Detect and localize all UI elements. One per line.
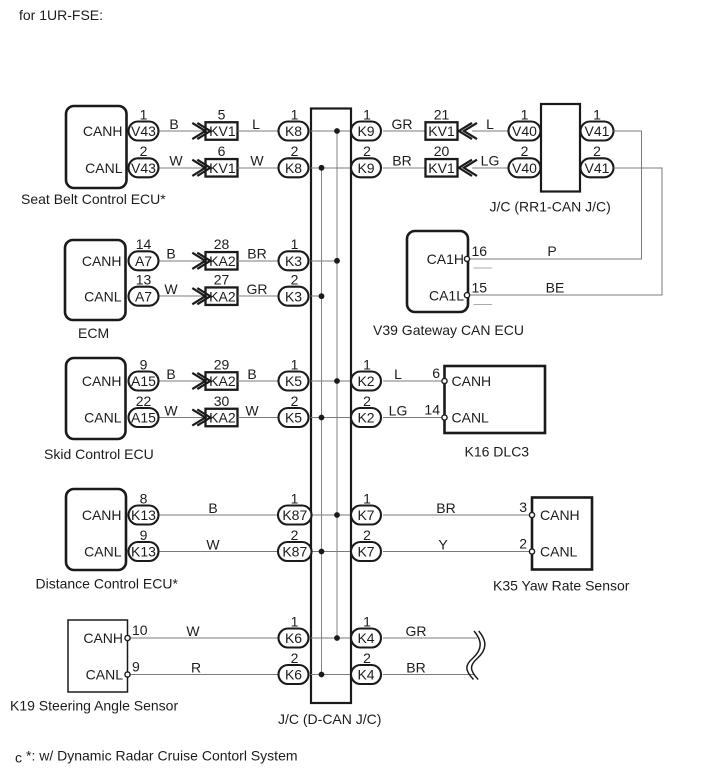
svg-text:K19 Steering Angle Sensor: K19 Steering Angle Sensor — [10, 698, 178, 714]
svg-text:KA2: KA2 — [209, 288, 236, 304]
connector A7 pin 13 — [129, 287, 159, 306]
svg-text:K13: K13 — [131, 507, 156, 523]
wire K3-1 into junction block — [311, 260, 338, 262]
V39 Gateway CAN ECU box — [407, 231, 468, 312]
connector K5 pin 1 — [279, 372, 309, 391]
junction dot row5 CANL — [319, 672, 325, 678]
wire A15-9 to KA2 (B) — [159, 380, 207, 382]
connector V43 pin 1 — [129, 122, 159, 141]
svg-text:1: 1 — [140, 106, 148, 122]
svg-text:2: 2 — [291, 272, 299, 288]
svg-text:J/C (D-CAN J/C): J/C (D-CAN J/C) — [278, 711, 381, 727]
svg-text:K4: K4 — [357, 667, 374, 683]
splice chevrons into KA2 pin 28 — [192, 253, 210, 269]
wire V43-1 to KV1 (B) — [159, 130, 207, 132]
connector A15 pin 22 — [129, 408, 159, 427]
svg-text:KV1: KV1 — [428, 123, 455, 139]
svg-text:K3: K3 — [285, 253, 302, 269]
junction dot row5 CANH — [334, 635, 340, 641]
CANL internal bus line — [321, 168, 323, 675]
junction connector KA2 pin 28 — [206, 252, 238, 269]
svg-text:K4: K4 — [357, 630, 374, 646]
svg-text:V39 Gateway CAN ECU: V39 Gateway CAN ECU — [373, 322, 524, 338]
svg-text:2: 2 — [519, 536, 527, 552]
svg-text:A15: A15 — [131, 373, 156, 389]
junction block J/C (D-CAN J/C) body — [311, 109, 351, 704]
junction connector KA2 pin 30 — [206, 409, 238, 427]
wire through junction block row5 CANL — [311, 674, 352, 676]
svg-text:K9: K9 — [357, 160, 374, 176]
wire through junction block row1 CANL — [311, 167, 352, 169]
connector K7 pin 1 — [351, 506, 381, 525]
svg-text:2: 2 — [140, 143, 148, 159]
connector K13 pin 9 — [129, 542, 159, 561]
svg-text:V40: V40 — [512, 123, 537, 139]
svg-text:BR: BR — [247, 246, 266, 262]
svg-text:W: W — [245, 402, 259, 418]
svg-text:GR: GR — [247, 281, 268, 297]
wire through junction block row4 CANL — [311, 551, 352, 553]
svg-text:L: L — [486, 116, 494, 132]
svg-text:CANL: CANL — [84, 410, 122, 426]
svg-text:KA2: KA2 — [209, 410, 236, 426]
connector K9 pin 1 — [351, 122, 381, 141]
junction block J/C (RR1-CAN J/C) body — [541, 104, 580, 192]
junction connector KV1 pin 21 — [426, 122, 458, 140]
svg-text:CA1L: CA1L — [429, 288, 464, 304]
svg-text:K3: K3 — [285, 288, 302, 304]
svg-text:2: 2 — [593, 143, 601, 159]
connector V40 pin 2 — [509, 158, 541, 177]
svg-text:B: B — [247, 366, 256, 382]
junction connector KV1 pin 6 — [206, 159, 238, 177]
svg-text:8: 8 — [140, 490, 148, 506]
svg-text:21: 21 — [434, 106, 450, 122]
svg-text:GR: GR — [406, 623, 427, 639]
wire V43-2 to KV1 (W) — [159, 167, 207, 169]
svg-text:6: 6 — [432, 365, 440, 381]
svg-text:1: 1 — [363, 356, 371, 372]
junction dot row3 CANL — [319, 415, 325, 421]
svg-text:5: 5 — [218, 106, 226, 122]
wire K2 to DLC3 (LG) — [383, 417, 445, 419]
wire V41-1 to CA1H (P) with corner — [470, 131, 642, 259]
svg-text:W: W — [186, 623, 200, 639]
svg-text:9: 9 — [132, 659, 140, 675]
wire KA2 to K3 (GR) — [238, 295, 279, 297]
connector K9 pin 2 — [351, 158, 381, 177]
svg-text:A7: A7 — [135, 253, 152, 269]
svg-text:K5: K5 — [285, 410, 302, 426]
svg-text:K5: K5 — [285, 373, 302, 389]
svg-text:KA2: KA2 — [209, 253, 236, 269]
svg-text:Skid Control ECU: Skid Control ECU — [44, 446, 154, 462]
splice chevrons into KA2 pin 27 — [192, 288, 210, 304]
svg-text:2: 2 — [291, 650, 299, 666]
pin terminal 10 — [125, 635, 130, 640]
svg-text:CANL: CANL — [84, 288, 122, 304]
svg-text:2: 2 — [363, 527, 371, 543]
connector V41 pin 1 — [581, 122, 614, 141]
svg-text:KV1: KV1 — [428, 160, 455, 176]
pin terminal 6 — [442, 378, 447, 383]
connector K6 pin 2 — [279, 665, 309, 684]
Seat Belt Control ECU box — [66, 106, 127, 188]
svg-text:CANL: CANL — [452, 410, 490, 426]
junction dot row4 CANL — [319, 549, 325, 555]
connector K87 pin 1 — [278, 506, 312, 525]
pin terminal 16 — [464, 256, 469, 261]
svg-text:6: 6 — [218, 143, 226, 159]
Distance Control ECU box — [66, 489, 126, 570]
wire KV1 to K8 (L) — [238, 130, 279, 132]
splice chevrons into KV1 pin 5 — [192, 123, 210, 139]
wire K13-9 to K87 (W) — [159, 551, 279, 553]
svg-text:CANH: CANH — [452, 373, 492, 389]
svg-text:9: 9 — [140, 356, 148, 372]
splice chevrons into KA2 pin 29 — [192, 373, 210, 389]
wire through junction block row3 CANH — [311, 380, 352, 382]
svg-text:2: 2 — [291, 143, 299, 159]
wire pin10 to K6 (W) — [128, 637, 279, 639]
svg-text:9: 9 — [140, 527, 148, 543]
svg-text:1: 1 — [291, 236, 299, 252]
svg-text:1: 1 — [291, 106, 299, 122]
svg-text:10: 10 — [132, 622, 148, 638]
svg-text:CANH: CANH — [82, 253, 122, 269]
pin terminal 14 — [442, 415, 447, 420]
svg-text:K13: K13 — [131, 544, 156, 560]
svg-text:2: 2 — [363, 393, 371, 409]
shield mark CA1H — [474, 267, 493, 269]
svg-text:27: 27 — [214, 272, 230, 288]
svg-text:V43: V43 — [131, 160, 156, 176]
pin terminal 9 — [125, 672, 130, 677]
connector K7 pin 2 — [351, 542, 381, 561]
wire A7-14 to KA2 (B) — [159, 260, 207, 262]
connector K3 pin 1 — [279, 251, 309, 270]
svg-text:CANH: CANH — [540, 507, 580, 523]
junction dot row1 CANL — [319, 165, 325, 171]
svg-text:20: 20 — [434, 143, 450, 159]
svg-text:K2: K2 — [357, 373, 374, 389]
svg-text:13: 13 — [136, 272, 152, 288]
wire A15-22 to KA2 (W) — [159, 417, 207, 419]
connector V40 pin 1 — [509, 122, 541, 141]
svg-text:K7: K7 — [357, 507, 374, 523]
svg-text:ECM: ECM — [78, 325, 109, 341]
svg-text:K6: K6 — [285, 667, 302, 683]
wire KV1 to V40 (L) — [472, 130, 509, 132]
connector K4 pin 1 — [351, 629, 381, 648]
svg-text:V41: V41 — [585, 160, 610, 176]
svg-text:BR: BR — [392, 153, 411, 169]
svg-text:1: 1 — [593, 106, 601, 122]
svg-text:CA1H: CA1H — [427, 251, 464, 267]
svg-text:14: 14 — [136, 236, 152, 252]
svg-text:2: 2 — [363, 650, 371, 666]
svg-text:14: 14 — [424, 402, 440, 418]
svg-text:CANL: CANL — [86, 667, 124, 683]
svg-text:LG: LG — [481, 153, 500, 169]
svg-text:K35 Yaw Rate Sensor: K35 Yaw Rate Sensor — [493, 578, 630, 594]
svg-text:K2: K2 — [357, 410, 374, 426]
shield mark CA1L — [474, 304, 493, 306]
svg-text:1: 1 — [363, 106, 371, 122]
svg-text:J/C (RR1-CAN J/C): J/C (RR1-CAN J/C) — [490, 199, 611, 215]
svg-text:2: 2 — [291, 527, 299, 543]
K16 DLC3 box — [445, 366, 546, 433]
splice chevrons out of KV1 pin 20 — [459, 160, 477, 176]
svg-text:GR: GR — [392, 116, 413, 132]
wire A7-13 to KA2 (W) — [159, 295, 207, 297]
svg-text:V41: V41 — [585, 123, 610, 139]
connector K2 pin 1 — [351, 372, 381, 391]
junction dot row1 CANH — [334, 128, 340, 134]
svg-text:L: L — [394, 366, 402, 382]
wire through junction block row5 CANH — [311, 637, 352, 639]
pin terminal 3 — [529, 512, 534, 517]
svg-text:*: w/ Dynamic Radar Cruise Con: *: w/ Dynamic Radar Cruise Contorl Syste… — [26, 747, 298, 763]
wire pin9 to K6 (R) — [128, 674, 279, 676]
wire K4-1 continues (GR) — [383, 637, 477, 639]
junction dot row2 CANL — [319, 293, 325, 299]
svg-text:1: 1 — [291, 490, 299, 506]
svg-text:B: B — [166, 366, 175, 382]
svg-text:BE: BE — [546, 280, 565, 296]
connector K87 pin 2 — [278, 542, 312, 561]
wire KA2 to K5 (W) — [238, 417, 279, 419]
svg-text:Y: Y — [438, 536, 448, 552]
svg-text:Distance Control ECU*: Distance Control ECU* — [36, 576, 179, 592]
Skid Control ECU box — [66, 358, 126, 439]
CANH internal bus line — [336, 131, 338, 638]
junction dot row2 CANH — [334, 258, 340, 264]
svg-text:BR: BR — [406, 659, 425, 675]
splice chevrons into KV1 pin 6 — [192, 160, 210, 176]
wire KV1 to V40 (LG) — [472, 167, 509, 169]
svg-text:KA2: KA2 — [209, 373, 236, 389]
wire K2 to DLC3 (L) — [383, 380, 445, 382]
svg-text:1: 1 — [363, 613, 371, 629]
wire through junction block row3 CANL — [311, 417, 352, 419]
svg-text:15: 15 — [472, 279, 488, 295]
svg-text:K87: K87 — [282, 544, 307, 560]
svg-text:29: 29 — [214, 356, 230, 372]
svg-text:KV1: KV1 — [209, 160, 236, 176]
svg-text:16: 16 — [472, 243, 488, 259]
wire K9 to KV1 (BR) — [383, 167, 426, 169]
junction connector KA2 pin 27 — [206, 287, 238, 305]
connector K8 pin 2 — [279, 158, 309, 177]
wire K7 to yaw rate sensor (BR) — [383, 514, 532, 516]
svg-text:c: c — [15, 749, 22, 765]
svg-text:V40: V40 — [512, 160, 537, 176]
connector K8 pin 1 — [279, 122, 309, 141]
junction dot row3 CANH — [334, 378, 340, 384]
svg-text:K8: K8 — [285, 160, 302, 176]
svg-text:2: 2 — [521, 143, 529, 159]
svg-text:for 1UR-FSE:: for 1UR-FSE: — [19, 7, 103, 23]
svg-text:1: 1 — [363, 490, 371, 506]
wire break mark — [467, 631, 485, 680]
svg-text:KV1: KV1 — [209, 123, 236, 139]
svg-text:B: B — [169, 116, 178, 132]
svg-text:L: L — [252, 116, 260, 132]
svg-text:CANL: CANL — [85, 160, 123, 176]
wire V41-2 to CA1L (BE) with corner — [470, 168, 663, 295]
svg-text:CANH: CANH — [82, 507, 122, 523]
pin terminal 2 — [529, 549, 534, 554]
connector A7 pin 14 — [129, 251, 159, 270]
svg-text:W: W — [206, 536, 220, 552]
svg-text:A15: A15 — [131, 410, 156, 426]
svg-text:K8: K8 — [285, 123, 302, 139]
svg-text:28: 28 — [214, 236, 230, 252]
svg-text:K7: K7 — [357, 544, 374, 560]
svg-text:P: P — [547, 243, 556, 259]
svg-text:V43: V43 — [131, 123, 156, 139]
wire through junction block row4 CANH — [311, 514, 352, 516]
svg-text:BR: BR — [436, 500, 455, 516]
junction connector KV1 pin 20 — [426, 159, 458, 177]
svg-text:2: 2 — [291, 393, 299, 409]
wire K13-8 to K87 (B) — [159, 514, 279, 516]
wire K4-2 continues (BR) — [383, 674, 474, 676]
svg-text:CANH: CANH — [83, 123, 123, 139]
ECM box — [65, 240, 126, 320]
connector V43 pin 2 — [129, 158, 159, 177]
svg-text:CANH: CANH — [83, 630, 123, 646]
wire through junction block row1 CANH — [311, 130, 352, 132]
svg-text:K9: K9 — [357, 123, 374, 139]
svg-text:2: 2 — [363, 143, 371, 159]
svg-text:W: W — [164, 281, 178, 297]
svg-text:CANH: CANH — [82, 373, 122, 389]
junction dot row4 CANH — [334, 512, 340, 518]
svg-text:22: 22 — [136, 393, 152, 409]
junction connector KA2 pin 29 — [206, 372, 238, 390]
svg-text:Seat Belt Control ECU*: Seat Belt Control ECU* — [21, 191, 166, 207]
splice chevrons into KA2 pin 30 — [192, 409, 210, 425]
svg-text:3: 3 — [519, 499, 527, 515]
svg-text:W: W — [250, 153, 264, 169]
svg-text:W: W — [169, 153, 183, 169]
wire K7 to yaw rate sensor (Y) — [383, 551, 532, 553]
connector K4 pin 2 — [351, 665, 381, 684]
connector V41 pin 2 — [581, 158, 614, 177]
svg-text:CANL: CANL — [540, 544, 578, 560]
wire KA2 to K3 (BR) — [238, 260, 279, 262]
connector K3 pin 2 — [279, 287, 309, 306]
junction connector KV1 pin 5 — [206, 122, 238, 140]
wire K3-2 into junction block — [311, 295, 322, 297]
svg-text:R: R — [191, 659, 201, 675]
connector K2 pin 2 — [351, 408, 381, 427]
svg-text:30: 30 — [214, 393, 230, 409]
svg-text:W: W — [164, 402, 178, 418]
wire KV1 to K8 (W) — [238, 167, 279, 169]
connector K5 pin 2 — [279, 408, 309, 427]
svg-text:1: 1 — [291, 613, 299, 629]
connector K6 pin 1 — [279, 629, 309, 648]
splice chevrons out of KV1 pin 21 — [459, 123, 477, 139]
wire K9 to KV1 (GR) — [383, 130, 426, 132]
wire KA2 to K5 (B) — [238, 380, 279, 382]
connector K13 pin 8 — [129, 506, 159, 525]
svg-text:LG: LG — [389, 402, 408, 418]
K19 Steering Angle Sensor box — [68, 620, 128, 692]
svg-text:CANL: CANL — [84, 544, 122, 560]
svg-text:1: 1 — [291, 356, 299, 372]
svg-text:B: B — [166, 246, 175, 262]
svg-text:B: B — [208, 500, 217, 516]
svg-text:1: 1 — [521, 106, 529, 122]
svg-text:K16 DLC3: K16 DLC3 — [465, 444, 530, 460]
svg-text:K87: K87 — [282, 507, 307, 523]
svg-text:K6: K6 — [285, 630, 302, 646]
connector A15 pin 9 — [129, 372, 159, 391]
svg-text:A7: A7 — [135, 288, 152, 304]
pin terminal 15 — [464, 293, 469, 298]
K35 Yaw Rate Sensor box — [532, 498, 592, 570]
